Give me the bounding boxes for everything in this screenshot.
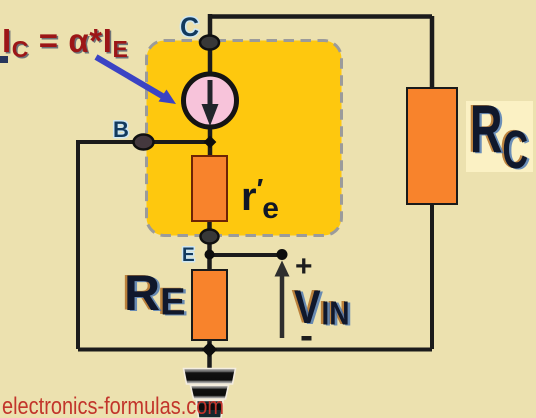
node E dot (box bottom) (201, 230, 219, 244)
wire: node C to RC branch (top horizontal) (208, 14, 432, 19)
dashed equivalent-circuit box (147, 41, 342, 236)
node B dot (134, 135, 154, 150)
svg-text:B: B (113, 117, 129, 142)
blue annotation arrow (96, 57, 176, 104)
resistor RC (407, 88, 457, 204)
node C dot (200, 36, 219, 50)
VIN probe top dot (277, 249, 288, 260)
label RE (122, 265, 188, 325)
svg-text:+: + (295, 250, 313, 283)
current source arrow (208, 80, 213, 106)
svg-text:electronics-formulas.com: electronics-formulas.com (2, 393, 224, 418)
wire: RC bottom to ground rail (430, 203, 434, 349)
wire: bottom horizontal (78, 348, 432, 352)
wire: vertical at node C down into box (208, 14, 213, 76)
ground junction diamond (202, 342, 218, 358)
svg-text:E: E (182, 245, 195, 266)
current source U1 (184, 74, 237, 127)
formula underline tick (0, 56, 8, 63)
wire: current source bottom to r'e (208, 125, 213, 158)
label VIN (291, 282, 352, 335)
junction dot on B wire (204, 136, 217, 149)
svg-text:C: C (180, 12, 199, 42)
formula IC = alpha*IE (2, 22, 130, 64)
wire: right vertical to RC (430, 16, 435, 90)
wire: left vertical from B down (76, 142, 80, 349)
wire: RE bottom to ground (207, 339, 212, 369)
resistor r'e (192, 156, 227, 221)
node E small dot (205, 250, 215, 260)
RC highlight (466, 101, 533, 172)
ground symbol (184, 369, 236, 418)
label RC (468, 91, 531, 180)
resistor RE (192, 270, 227, 340)
minus sign (302, 336, 312, 341)
wire: r'e bottom through node E to RE (207, 220, 212, 272)
VIN arrow (275, 261, 290, 339)
wire: base B horizontal (76, 140, 210, 144)
wire: node E to VIN probe (210, 253, 282, 257)
